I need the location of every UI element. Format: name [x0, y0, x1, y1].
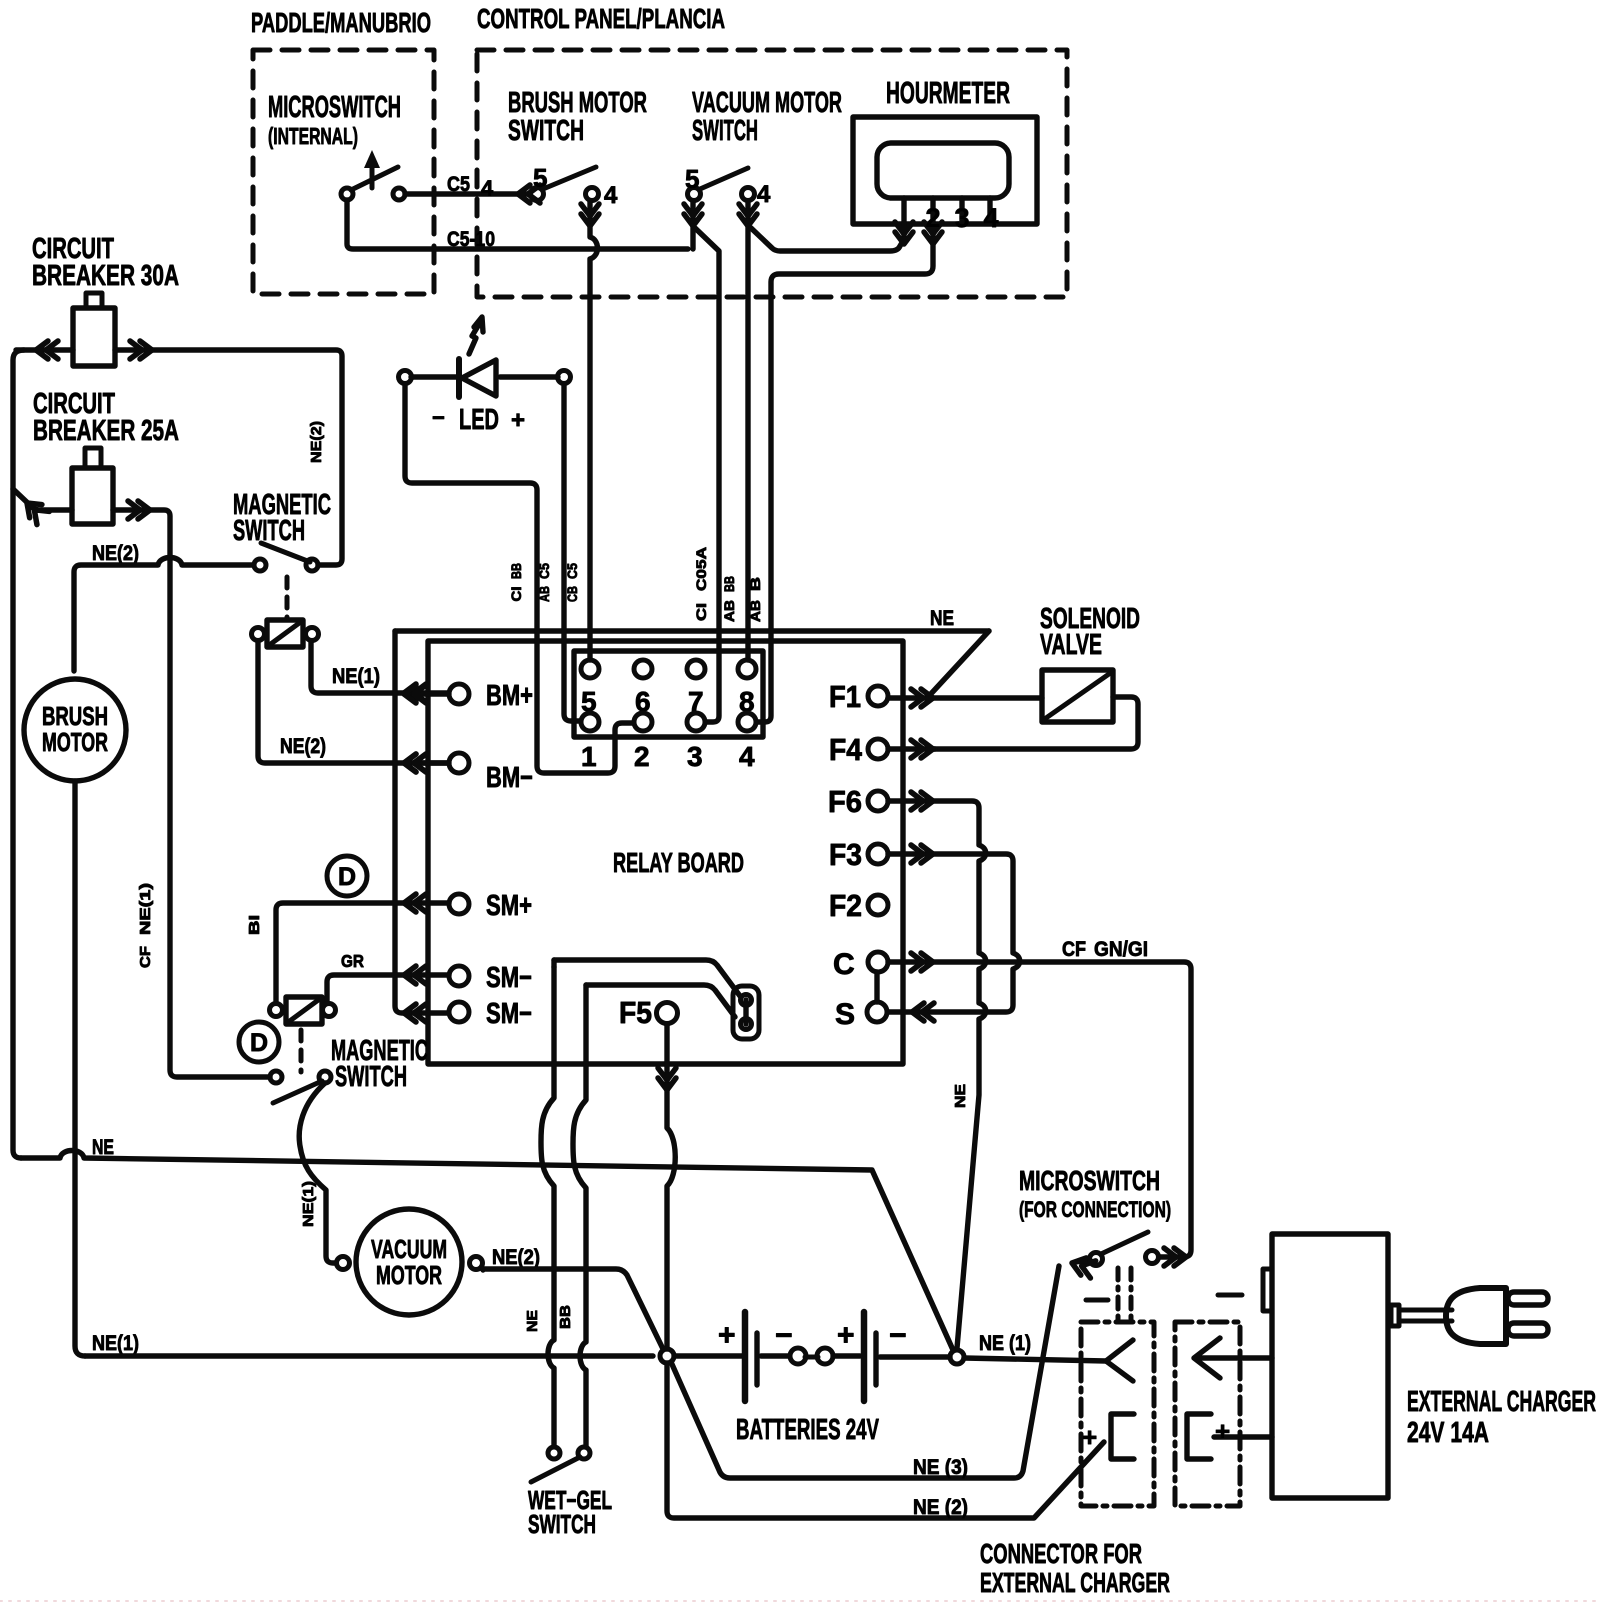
microswitch S1 (internal) left contact — [341, 188, 353, 200]
wire SM+ to MS2 coil left — [276, 903, 449, 1003]
relay terminal C — [868, 952, 888, 972]
dashed enclosure control panel box — [477, 50, 1067, 297]
connector charger-side dashed box — [1175, 1322, 1240, 1506]
arrow left at SM- upper — [404, 966, 426, 984]
wire to jumper bottom — [586, 985, 735, 1017]
arrow into left rail from CB2 — [21, 496, 49, 524]
hourmeter pin 3 stub — [959, 198, 964, 223]
wire solenoid valve to F4 — [933, 697, 1138, 749]
magnetic switch MS1 linkage dashed — [285, 577, 290, 618]
wire F5 down to battery rail (arrow, hop over NE rail) — [667, 1024, 675, 1349]
svg-text:BRUSH: BRUSH — [42, 703, 108, 731]
battery link left circle — [790, 1348, 806, 1364]
svg-text:SWITCH: SWITCH — [692, 115, 758, 147]
vacuum motor switch terminal 4 — [742, 188, 755, 201]
magnetic switch MS2 coil diagonal — [287, 998, 321, 1023]
svg-text:C5: C5 — [447, 173, 470, 196]
vacuum motor right terminal — [470, 1257, 483, 1270]
wet-gel switch right contact — [578, 1447, 590, 1459]
wire CB1 to magnetic switch feed — [115, 350, 342, 565]
node A junction (F5/battery) — [660, 1349, 674, 1363]
battery B2 negative plate — [873, 1333, 878, 1385]
wire F3 to S terminal (hop over C wire) — [888, 854, 1020, 1012]
svg-text:NE(1): NE(1) — [92, 1332, 139, 1355]
connector machine-side dashed box — [1081, 1322, 1154, 1506]
hourmeter outer box — [853, 117, 1037, 224]
circuit breaker CB1 30A button — [86, 293, 102, 308]
arrow left at SM- lower — [404, 1004, 426, 1022]
relay terminal SM- lower — [449, 1002, 469, 1022]
wire LED anode to connector pin 1 — [564, 384, 580, 721]
svg-text:MICROSWITCH: MICROSWITCH — [268, 91, 401, 124]
NE vertical down to SM- terminal — [395, 631, 448, 1013]
hourmeter pin 2 — [930, 198, 935, 240]
wire LED cathode to connector pin 2 — [405, 384, 633, 773]
svg-text:BATTERIES 24V: BATTERIES 24V — [736, 1414, 879, 1446]
wire hourmeter pin 2 to connector pin 4 vertical — [757, 244, 933, 722]
svg-text:BM+: BM+ — [486, 680, 533, 712]
relay terminal SM- upper — [449, 966, 469, 986]
battery B1 positive plate — [742, 1312, 749, 1401]
svg-text:MOTOR: MOTOR — [42, 729, 108, 757]
connector pin 5 socket — [581, 660, 599, 678]
battery rail segment to battery 1 — [674, 1353, 742, 1358]
LED D1 cathode bar — [456, 359, 462, 397]
arrow right at F6 — [911, 792, 933, 810]
external charger socket tab — [1263, 1269, 1272, 1311]
charging microswitch right contact — [1146, 1251, 1159, 1264]
wire brush terminal 4 down to connector pin 5 (hop over C5-10) — [590, 226, 598, 660]
battery B2 positive plate — [861, 1312, 868, 1401]
LED D1 light arrow — [469, 317, 483, 354]
magnetic switch MS2 lever — [273, 1081, 322, 1103]
connector charger pin lower — [1187, 1414, 1272, 1459]
arrow on NE(3) wire into microswitch — [1069, 1254, 1095, 1278]
svg-text:SM−: SM− — [486, 962, 532, 994]
svg-text:4: 4 — [983, 203, 998, 233]
svg-text:NE (3): NE (3) — [913, 1456, 968, 1479]
svg-text:CONNECTOR FOR: CONNECTOR FOR — [980, 1538, 1142, 1569]
svg-text:+: + — [511, 407, 525, 434]
svg-text:BM−: BM− — [486, 762, 533, 794]
solenoid valve Y1 diagonal — [1046, 674, 1109, 718]
arrow into brush switch terminal 5 — [518, 185, 540, 203]
relay terminal BM- — [449, 753, 469, 773]
vacuum motor M2 — [356, 1209, 462, 1315]
wire brush motor down to battery rail — [75, 781, 85, 1356]
charging microswitch linkage dash-dot — [1116, 1268, 1121, 1320]
wire LED anode — [500, 374, 558, 379]
svg-text:MICROSWITCH: MICROSWITCH — [1019, 1165, 1160, 1196]
wire NE(3) node A to charging microswitch — [671, 1266, 1059, 1478]
arrow right at F3 — [911, 845, 933, 863]
svg-text:CF: CF — [1062, 938, 1086, 961]
magnetic switch MS2 coil right terminal — [323, 1004, 336, 1017]
wet-gel switch left contact — [548, 1447, 560, 1459]
svg-text:F2: F2 — [829, 890, 862, 923]
svg-text:+: + — [1215, 1416, 1230, 1446]
magnetic switch MS1 coil body — [267, 620, 303, 647]
wire node B to connector pin — [964, 1358, 1106, 1361]
connector pin 8 socket — [738, 660, 756, 678]
mains plug lower prong — [1508, 1323, 1548, 1336]
brush motor switch terminal 4 — [586, 188, 599, 201]
wire battery 2 to node B — [880, 1354, 950, 1359]
connector pin 2 socket — [634, 713, 652, 731]
wire vacuum terminal 4 down to connector pin 8 — [745, 226, 750, 660]
relay terminal F2 — [868, 895, 888, 915]
svg-text:NE(2): NE(2) — [308, 421, 325, 463]
svg-text:VACUUM: VACUUM — [371, 1236, 447, 1264]
mains plug upper prong — [1508, 1292, 1548, 1305]
svg-text:NE(2): NE(2) — [92, 542, 139, 565]
battery B1 negative plate — [754, 1333, 759, 1385]
wire MS2 to vacuum motor (S-curve over NE rail) — [299, 1083, 336, 1263]
relay terminal F6 — [868, 791, 888, 811]
connector machine pin upper (battery +) — [1106, 1340, 1133, 1381]
magnetic switch MS2 linkage dashed — [299, 1030, 304, 1072]
svg-text:GN/GI: GN/GI — [1094, 938, 1148, 961]
charging microswitch lever — [1101, 1232, 1148, 1254]
battery rail left segment — [85, 1353, 653, 1358]
svg-text:+: + — [837, 1319, 855, 1352]
wire BM- exits board — [421, 760, 449, 765]
relay terminal BM+ — [449, 684, 469, 704]
svg-text:BB: BB — [508, 563, 524, 579]
magnetic switch MS2 coil left terminal — [270, 1004, 283, 1017]
arrow right at F1 — [911, 689, 933, 707]
external charger cord — [1399, 1308, 1452, 1313]
LED D1 right terminal — [558, 371, 571, 384]
brush motor switch lever — [543, 167, 596, 189]
connector pin 4 socket — [738, 713, 756, 731]
svg-text:CF: CF — [137, 946, 154, 968]
svg-text:−: − — [775, 1319, 793, 1352]
svg-text:(INTERNAL): (INTERNAL) — [268, 123, 358, 149]
relay terminal F3 — [868, 844, 888, 864]
wire SM- to MS2 coil right — [327, 975, 449, 1003]
microswitch S1 (internal) right contact — [393, 188, 405, 200]
svg-text:F4: F4 — [829, 734, 862, 767]
wire vacuum-5 diagonal to vertical — [695, 228, 719, 722]
svg-text:+: + — [1082, 1422, 1097, 1452]
circuit breaker CB2 25A body — [72, 468, 113, 524]
wire F1 to solenoid valve — [888, 695, 1042, 700]
connector machine pin lower (charge -) — [1111, 1414, 1134, 1459]
wire brush motor to magnetic switch NE(2) (hop over CB2 wire) — [74, 558, 253, 672]
LED D1 triangle — [462, 360, 496, 396]
svg-text:LED: LED — [459, 404, 499, 436]
svg-text:BB: BB — [721, 576, 737, 592]
magnetic switch MS2 right contact — [319, 1071, 331, 1083]
vacuum motor switch lever — [700, 168, 748, 189]
vacuum motor switch terminal 5 — [688, 188, 701, 201]
wire battery 1 to link — [761, 1353, 789, 1358]
long NE rail wire (hop over brush motor wire) — [21, 1151, 953, 1351]
svg-text:F3: F3 — [829, 839, 862, 872]
arrow right at charging microswitch output — [1164, 1248, 1186, 1266]
arrow right at CB2 output — [128, 501, 150, 519]
magnetic switch MS2 coil body — [286, 997, 322, 1024]
svg-text:24V 14A: 24V 14A — [1407, 1417, 1489, 1449]
wire C to charging microswitch — [888, 962, 1191, 1257]
svg-text:SWITCH: SWITCH — [528, 1511, 596, 1539]
wire C-S link — [874, 972, 879, 1002]
svg-text:F1: F1 — [829, 681, 861, 714]
svg-text:CONTROL PANEL/PLANCIA: CONTROL PANEL/PLANCIA — [477, 3, 725, 34]
relay terminal S — [867, 1002, 887, 1022]
wire jumper bottom branch down to wet-gel right (S-bends) — [573, 985, 586, 1446]
svg-text:NE (2): NE (2) — [913, 1496, 968, 1519]
dashed enclosure paddle/manubrio box — [253, 50, 434, 294]
external charger box — [1272, 1234, 1388, 1498]
NE diagonal from F1 — [928, 631, 989, 697]
svg-text:SM−: SM− — [486, 998, 532, 1030]
svg-text:HOURMETER: HOURMETER — [886, 77, 1010, 110]
relay board connector outline — [574, 651, 763, 737]
svg-text:SWITCH: SWITCH — [233, 515, 305, 547]
svg-text:SWITCH: SWITCH — [508, 115, 584, 147]
svg-text:RELAY BOARD: RELAY BOARD — [613, 847, 744, 878]
brush motor switch terminal 5 — [531, 188, 544, 201]
svg-text:SWITCH: SWITCH — [335, 1061, 407, 1093]
magnetic switch MS1 coil left terminal — [252, 628, 265, 641]
svg-text:CI: CI — [693, 603, 709, 621]
svg-text:B: B — [747, 577, 763, 591]
arrow left at BM+ — [404, 685, 426, 703]
relay terminal SM+ — [449, 894, 469, 914]
svg-text:(FOR CONNECTION): (FOR CONNECTION) — [1019, 1197, 1171, 1222]
vacuum motor left terminal — [337, 1257, 350, 1270]
magnetic switch MS1 lever — [261, 543, 310, 562]
brush motor M1 — [24, 679, 126, 781]
wire MS1 coil left to BM- — [258, 641, 448, 763]
magnetic switch MS2 left contact — [270, 1071, 282, 1083]
svg-text:EXTERNAL CHARGER: EXTERNAL CHARGER — [1407, 1386, 1596, 1418]
connector pin 3 socket — [687, 713, 705, 731]
svg-text:NE(2): NE(2) — [280, 735, 326, 758]
wire BM+ exits board — [421, 691, 449, 696]
svg-text:−: − — [432, 405, 445, 430]
arrow right at F4 — [911, 740, 933, 758]
wire between battery link circles — [805, 1355, 818, 1360]
scan artifact dotted line at bottom edge — [0, 1600, 1600, 1602]
wire F6 to NE vertical — [888, 801, 986, 1348]
hourmeter display window — [877, 143, 1009, 198]
connector pin 1 socket — [581, 713, 599, 731]
svg-text:2: 2 — [925, 203, 940, 233]
svg-text:C: C — [833, 948, 855, 981]
relay terminal F4 — [868, 739, 888, 759]
jumper J1 top contact — [741, 995, 752, 1006]
wire F5 node down to NE(2) run — [667, 1363, 1104, 1518]
svg-text:NE(1): NE(1) — [137, 883, 154, 935]
jumper J1 body — [733, 986, 759, 1039]
svg-text:NE(1): NE(1) — [332, 665, 380, 688]
arrow left into NE(1) wire at BM+ — [404, 684, 426, 702]
svg-text:EXTERNAL CHARGER: EXTERNAL CHARGER — [980, 1567, 1170, 1598]
arrow down from vacuum terminal 4 — [745, 201, 750, 226]
svg-text:CI: CI — [508, 587, 524, 602]
arrow left at SM+ — [404, 894, 426, 912]
arrow left at CB1 input — [36, 341, 58, 359]
wire left rail to CB1 — [16, 347, 73, 352]
arrow down from brush terminal 4 — [587, 201, 592, 226]
relay terminal F1 — [868, 686, 888, 706]
left rail branch to CB2 — [13, 489, 72, 510]
magnetic switch MS1 coil diagonal — [268, 621, 302, 646]
arrow right at CB1 output — [130, 341, 152, 359]
svg-text:4: 4 — [481, 176, 494, 201]
relay terminal F5 — [657, 1003, 678, 1024]
svg-text:AB: AB — [721, 600, 737, 622]
svg-text:NE(2): NE(2) — [492, 1246, 540, 1269]
arrow right at C — [911, 953, 933, 971]
mains plug body — [1446, 1288, 1506, 1344]
wire MS1 coil right to BM+ — [311, 641, 448, 693]
circuit breaker CB2 25A button — [85, 448, 101, 468]
wire vacuum-5 stub to C5-10 — [690, 226, 695, 249]
node B junction (NE rail/battery) — [950, 1350, 964, 1364]
svg-text:MOTOR: MOTOR — [376, 1262, 442, 1290]
relay board outline — [428, 641, 903, 1064]
svg-text:VALVE: VALVE — [1040, 629, 1102, 661]
svg-text:GR: GR — [341, 951, 364, 971]
svg-text:F5: F5 — [619, 997, 652, 1030]
connector pin 6 socket — [634, 660, 652, 678]
label D circle upper — [327, 856, 367, 896]
svg-text:3: 3 — [954, 203, 969, 233]
wire to jumper top — [554, 960, 740, 996]
svg-text:F6: F6 — [828, 786, 862, 819]
svg-text:SM+: SM+ — [486, 890, 532, 922]
svg-text:S: S — [835, 998, 855, 1031]
battery link right circle — [817, 1348, 833, 1364]
hourmeter pin 1 — [901, 198, 906, 240]
connector charger pin upper — [1194, 1338, 1272, 1378]
svg-text:BREAKER 30A: BREAKER 30A — [32, 260, 179, 292]
magnetic switch MS1 coil right terminal — [306, 628, 319, 641]
svg-text:+: + — [718, 1319, 736, 1352]
NE wire from F1 top run — [395, 628, 989, 633]
svg-text:BB: BB — [557, 1305, 574, 1329]
wire LED cathode — [411, 374, 457, 379]
svg-text:NE: NE — [930, 607, 954, 630]
wet-gel switch lever — [531, 1457, 580, 1482]
wire microswitch to brush switch (C5/4) — [405, 191, 528, 196]
magnetic switch MS1 left contact — [254, 559, 266, 571]
charging microswitch left contact — [1090, 1253, 1103, 1266]
svg-text:−: − — [889, 1319, 907, 1352]
wire CB2 output — [113, 510, 270, 1077]
svg-text:PADDLE/MANUBRIO: PADDLE/MANUBRIO — [251, 7, 431, 38]
arrow down from vacuum terminal 5 — [690, 201, 695, 226]
svg-text:1: 1 — [581, 741, 597, 772]
microswitch S1 lever — [351, 167, 398, 190]
svg-text:NE: NE — [524, 1310, 541, 1332]
arrow left into NE(2) wire at BM- — [404, 754, 426, 772]
solenoid valve Y1 body — [1042, 670, 1113, 722]
magnetic switch MS1 right contact — [306, 559, 318, 571]
svg-text:5: 5 — [685, 164, 699, 194]
svg-text:NE(1): NE(1) — [300, 1181, 317, 1227]
arrow left at BM- — [404, 754, 426, 772]
svg-text:C05A: C05A — [693, 547, 709, 591]
wire link to battery 2 — [833, 1353, 860, 1358]
svg-text:3: 3 — [687, 741, 703, 772]
svg-text:NE: NE — [952, 1084, 969, 1108]
svg-text:AB: AB — [747, 600, 763, 622]
arrow left at S — [912, 1003, 934, 1021]
svg-text:4: 4 — [604, 182, 618, 209]
svg-text:BI: BI — [246, 915, 263, 935]
wire jumper top branch down to wet-gel left (S-bends) — [541, 960, 554, 1446]
svg-text:D: D — [338, 863, 356, 891]
wire C5-10 from microswitch down — [347, 200, 688, 249]
wire F4 stub — [888, 746, 935, 751]
external charger cord tab — [1391, 1305, 1399, 1326]
svg-text:4: 4 — [739, 741, 755, 772]
circuit breaker CB1 30A body — [73, 308, 115, 366]
svg-text:2: 2 — [634, 741, 650, 772]
wire vacuum-4 branch to hourmeter pin 1 — [751, 228, 903, 251]
connector pin 7 socket — [687, 660, 705, 678]
left rail vertical — [13, 350, 24, 1158]
microswitch S1 actuator arrow — [370, 160, 375, 188]
jumper J1 bottom contact — [741, 1019, 752, 1030]
svg-text:NE (1): NE (1) — [979, 1332, 1031, 1355]
LED D1 left terminal — [399, 371, 412, 384]
svg-text:D: D — [250, 1029, 268, 1057]
label D circle lower — [239, 1022, 279, 1062]
svg-text:BREAKER 25A: BREAKER 25A — [33, 415, 179, 447]
wire vacuum motor to battery node — [483, 1269, 663, 1349]
hourmeter pin 4 stub — [987, 198, 992, 223]
